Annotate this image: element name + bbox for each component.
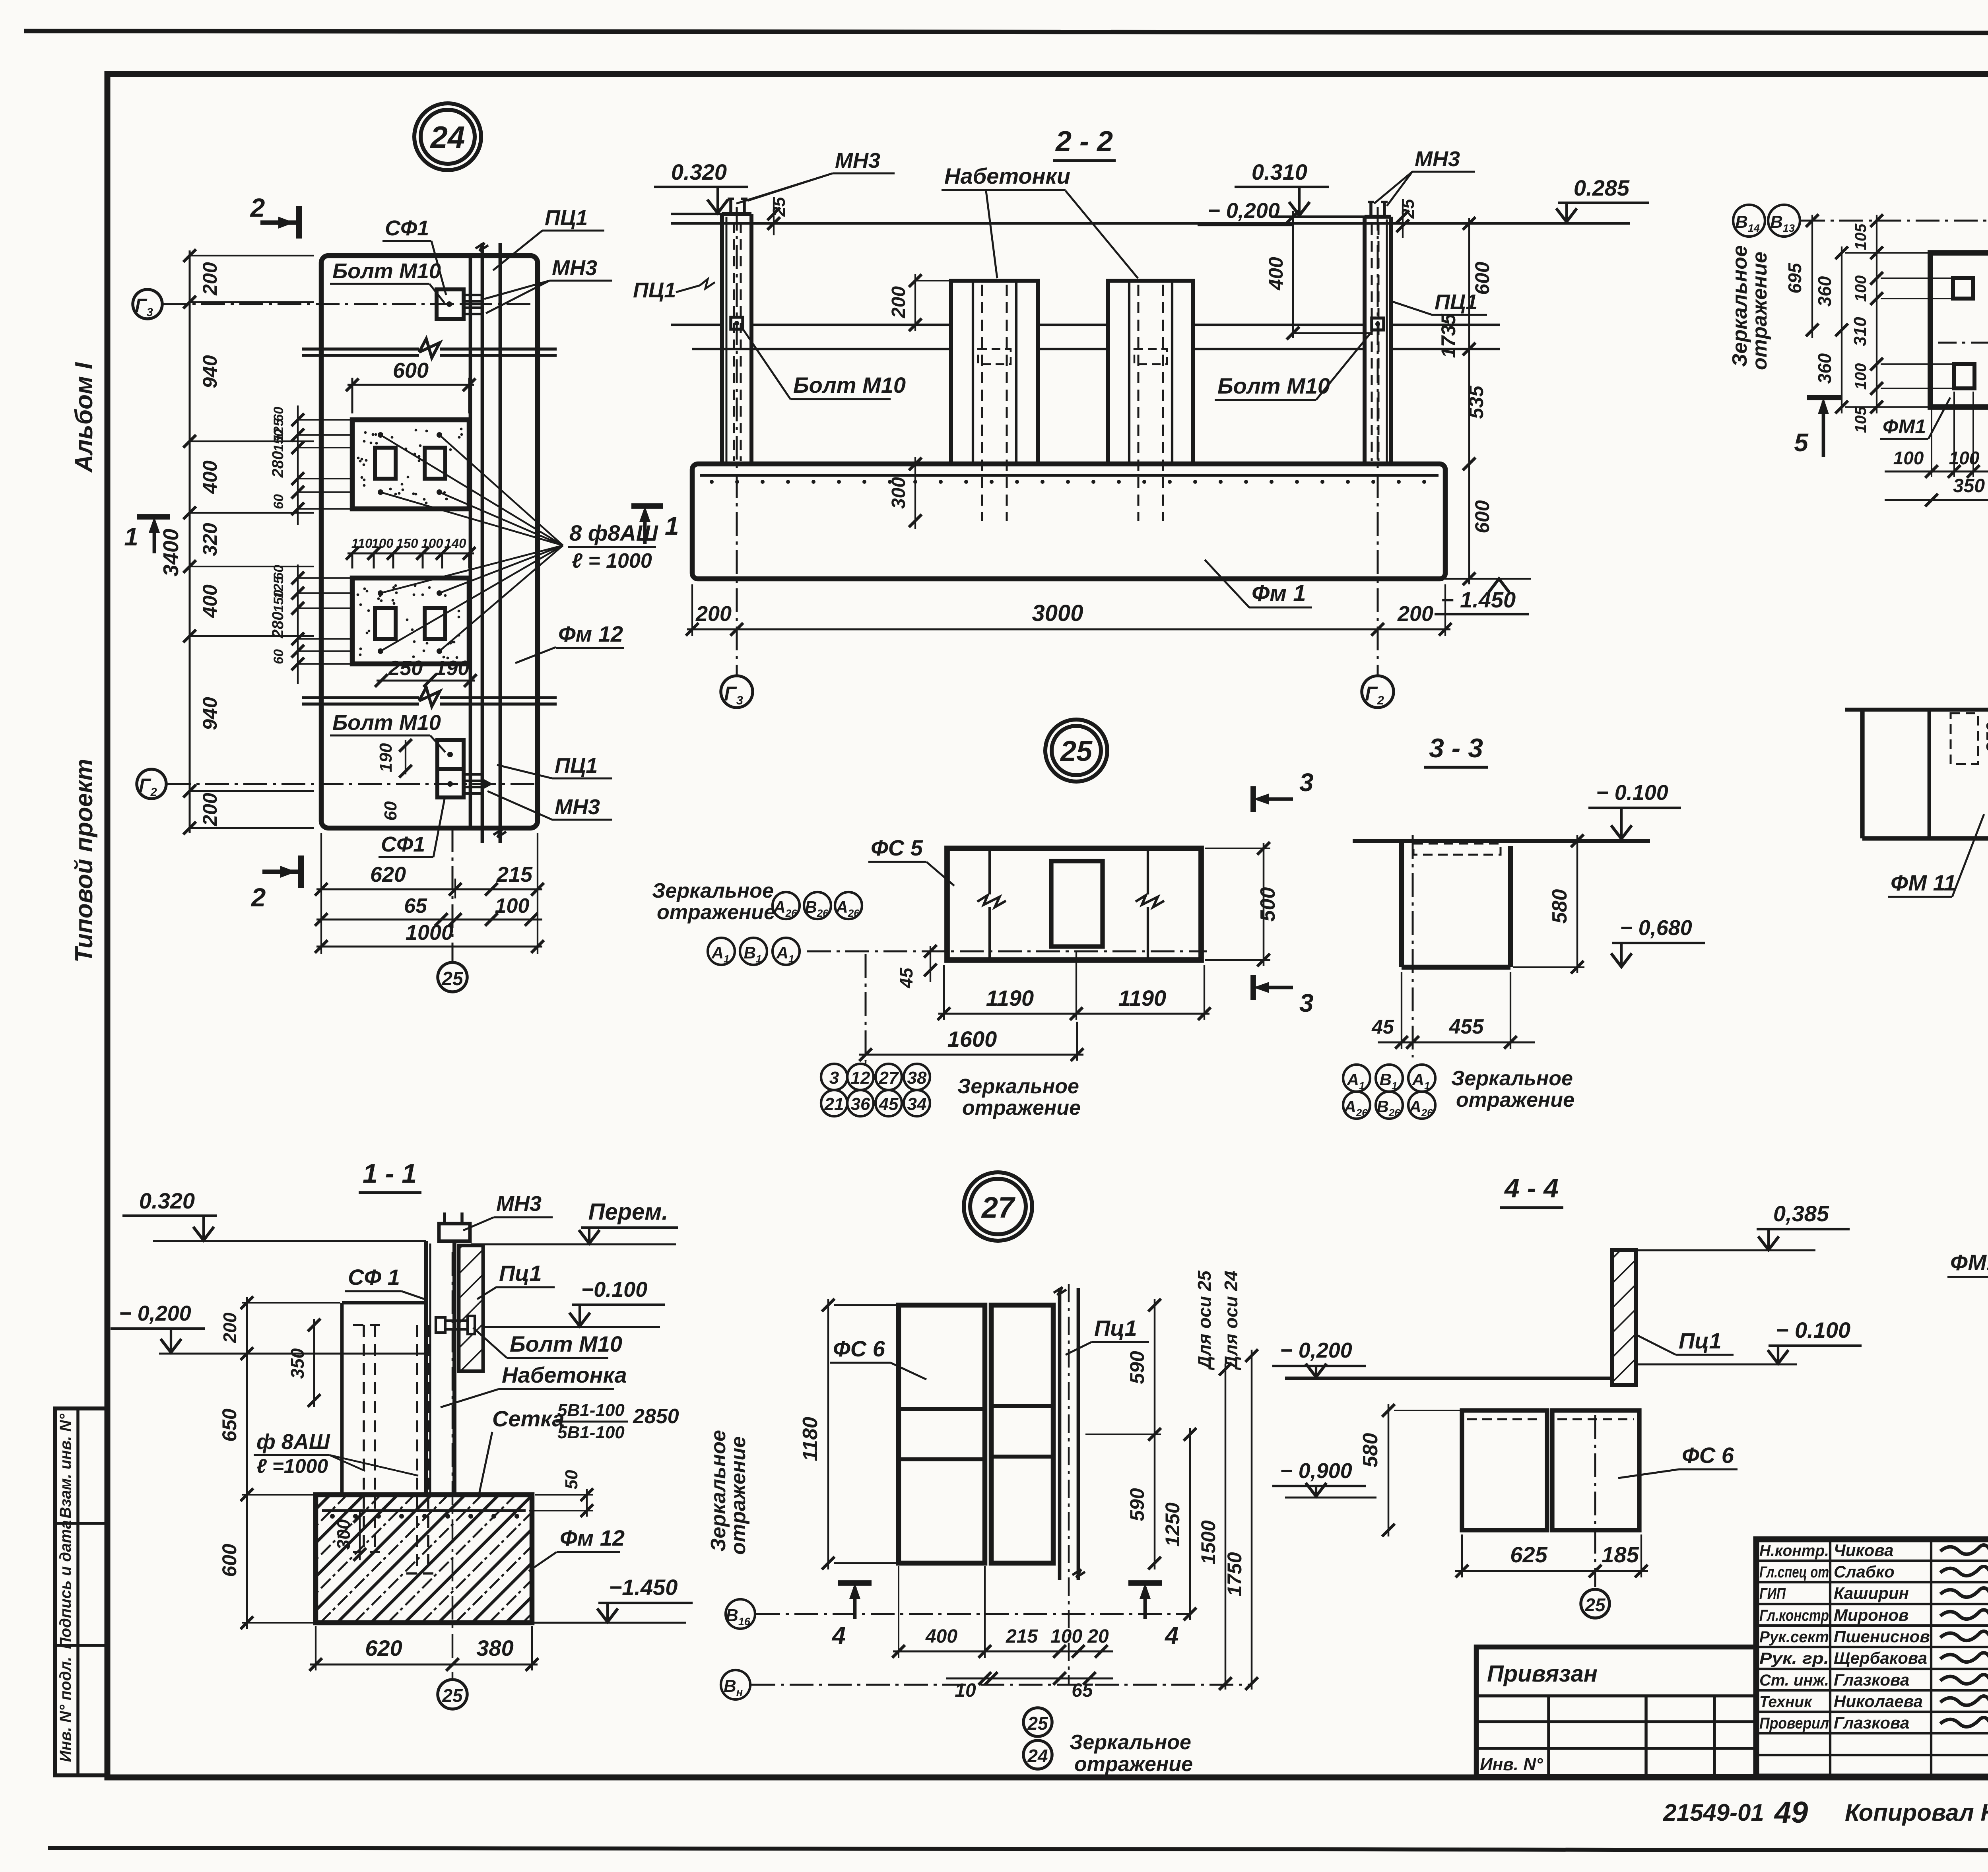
svg-text:100: 100 xyxy=(421,536,443,551)
title block signature table xyxy=(1756,1539,1988,1777)
section title 3-3 xyxy=(1424,733,1488,767)
svg-text:400: 400 xyxy=(1265,257,1287,291)
sheet trim border top xyxy=(24,31,1988,33)
svg-text:1750: 1750 xyxy=(1223,1552,1246,1596)
svg-text:Набетонка: Набетонка xyxy=(502,1362,627,1387)
svg-text:4 - 4: 4 - 4 xyxy=(1504,1173,1559,1203)
dim 1190 1190 xyxy=(938,952,1211,1020)
svg-text:140: 140 xyxy=(444,536,466,551)
section marker 1 left xyxy=(124,517,170,553)
svg-text:МН3: МН3 xyxy=(555,795,600,819)
svg-text:3: 3 xyxy=(1299,989,1314,1017)
label Набетонки with leaders xyxy=(942,163,1138,278)
ground line level 0.285 (long top line) xyxy=(671,222,1630,225)
axis 4-4 xyxy=(1594,1415,1596,1587)
svg-text:1600: 1600 xyxy=(947,1026,997,1051)
svg-text:Перем.: Перем. xyxy=(588,1199,668,1225)
svg-text:− 1.450: − 1.450 xyxy=(1441,587,1516,612)
node grid circles 3 12 27 38 / 21 36 45 34 xyxy=(821,1061,930,1116)
svg-text:0,385: 0,385 xyxy=(1773,1201,1829,1226)
svg-text:3: 3 xyxy=(829,1068,839,1088)
svg-text:280: 280 xyxy=(269,612,287,639)
axis line detail 25 xyxy=(807,951,1207,952)
bolt М10 on right column xyxy=(1372,318,1384,330)
dim 300 in beam xyxy=(888,457,922,529)
svg-text:− 0,900: − 0,900 xyxy=(1280,1459,1352,1483)
svg-text:Техник: Техник xyxy=(1759,1693,1813,1711)
label ПЦ1 4-4 xyxy=(1634,1328,1734,1355)
svg-text:500: 500 xyxy=(1256,887,1279,922)
набетонка block 2 xyxy=(1108,281,1193,521)
svg-text:Н.контр.: Н.контр. xyxy=(1759,1542,1829,1560)
level flag 0.310 right xyxy=(1235,159,1365,217)
inner small dimension chain lower block xyxy=(269,565,352,684)
svg-text:Зеркальное: Зеркальное xyxy=(652,879,774,902)
svg-text:10: 10 xyxy=(955,1680,976,1701)
svg-text:110: 110 xyxy=(351,536,373,551)
section marker 2 bottom xyxy=(250,855,301,912)
label Зеркальное отражение left of 25 xyxy=(652,879,775,924)
axis circles А26 В26 А26 xyxy=(773,892,862,919)
detail 24 slab outline xyxy=(321,256,538,828)
svg-text:45: 45 xyxy=(896,967,916,989)
svg-text:380: 380 xyxy=(476,1635,513,1661)
svg-text:400: 400 xyxy=(199,584,221,618)
svg-text:200: 200 xyxy=(695,602,732,626)
axis line 3-3 xyxy=(1412,835,1414,1057)
dim 580 3-3 xyxy=(1513,834,1584,974)
svg-text:310: 310 xyxy=(1850,317,1870,346)
svg-text:2: 2 xyxy=(250,193,265,222)
svg-text:27: 27 xyxy=(879,1068,899,1088)
svg-text:1000: 1000 xyxy=(406,921,453,945)
axis В16 det27 xyxy=(726,1599,1191,1629)
svg-text:45: 45 xyxy=(879,1094,899,1114)
svg-text:Глазкова: Глазкова xyxy=(1834,1670,1909,1689)
bolt М10 on left column xyxy=(731,317,743,329)
svg-text:Набетонки: Набетонки xyxy=(944,163,1070,188)
svg-text:60: 60 xyxy=(271,494,286,509)
svg-text:Николаева: Николаева xyxy=(1834,1692,1923,1711)
svg-text:МН3: МН3 xyxy=(496,1192,542,1216)
svg-text:отражение: отражение xyxy=(657,901,775,924)
СФ1 top anchor assembly xyxy=(437,289,482,319)
dim 200 near block1 xyxy=(888,274,949,331)
svg-text:600: 600 xyxy=(1471,500,1493,533)
axis circles 3-3 row2 xyxy=(1343,1092,1435,1119)
svg-text:24: 24 xyxy=(1027,1746,1048,1766)
hatched panel ПЦ1 4-4 xyxy=(1612,1250,1636,1385)
label СФ1 1-1 xyxy=(345,1265,425,1299)
detail 25 block ФС5 xyxy=(947,848,1201,960)
small dim 25 right column xyxy=(1396,199,1418,238)
level flag -0.100 3-3 xyxy=(1588,781,1681,839)
svg-text:350: 350 xyxy=(287,1348,308,1379)
svg-text:Болт М10: Болт М10 xyxy=(793,372,906,398)
svg-text:1180: 1180 xyxy=(799,1417,822,1461)
svg-text:105: 105 xyxy=(1852,406,1870,433)
label Набетонка 1-1 xyxy=(441,1362,627,1407)
svg-text:250: 250 xyxy=(1982,722,1988,753)
level flag -1.450 2-2 xyxy=(1435,579,1529,614)
svg-text:4: 4 xyxy=(1164,1622,1178,1649)
level flag -0,200 4-4 xyxy=(1272,1339,1612,1378)
svg-text:отражение: отражение xyxy=(1456,1088,1574,1112)
svg-text:− 0,200: − 0,200 xyxy=(119,1302,191,1325)
svg-text:2850: 2850 xyxy=(633,1405,679,1428)
svg-text:Для оси 24: Для оси 24 xyxy=(1221,1271,1241,1370)
bottom dimension 1000 xyxy=(315,921,544,953)
svg-text:МН3: МН3 xyxy=(552,256,597,280)
label Болт М10 1-1 xyxy=(473,1328,622,1358)
label ПЦ1 1-1 xyxy=(477,1261,555,1299)
level flag 0.320 1-1 xyxy=(122,1188,426,1241)
level flag 0.320 left xyxy=(654,159,748,214)
svg-text:45: 45 xyxy=(1371,1016,1394,1038)
sheet trim border bottom xyxy=(48,1848,1988,1851)
section title 4-4 xyxy=(1500,1173,1563,1208)
svg-text:5В1-100: 5В1-100 xyxy=(557,1401,625,1420)
section marker 2 top xyxy=(250,193,299,239)
level flag 0,385 xyxy=(1636,1201,1850,1250)
svg-text:350: 350 xyxy=(1953,475,1985,497)
svg-text:Взам. инв. N°: Взам. инв. N° xyxy=(57,1413,74,1518)
svg-text:СФ1: СФ1 xyxy=(381,832,425,856)
rebar dashed 1-1 xyxy=(353,1325,439,1573)
dim 1180 det27 xyxy=(799,1299,897,1569)
svg-text:4: 4 xyxy=(831,1622,846,1649)
svg-text:360: 360 xyxy=(1814,353,1835,384)
svg-text:Болт М10: Болт М10 xyxy=(1217,373,1330,398)
svg-text:695: 695 xyxy=(1784,262,1805,293)
svg-text:8 ф8АШ: 8 ф8АШ xyxy=(569,520,658,545)
набетонка block 1 xyxy=(951,281,1038,521)
axis Г3 xyxy=(133,289,538,319)
svg-text:Рук. гр.: Рук. гр. xyxy=(1759,1650,1829,1667)
svg-text:25: 25 xyxy=(1027,1713,1048,1734)
label ФМ 11 xyxy=(1888,814,1984,897)
rebar callout 8 Ф8АIII xyxy=(381,435,658,651)
bottom dims 620 380 1-1 xyxy=(309,1626,538,1671)
svg-text:100: 100 xyxy=(1852,363,1870,390)
label ФС 6 4-4 xyxy=(1618,1443,1738,1478)
svg-text:− 0,200: − 0,200 xyxy=(1280,1339,1352,1362)
section marker 5 left det26 xyxy=(1794,398,1841,457)
label Фм 12 xyxy=(515,621,624,663)
svg-text:−0.100: −0.100 xyxy=(581,1278,648,1302)
svg-text:ФС 5: ФС 5 xyxy=(871,835,923,860)
svg-text:Чикова: Чикова xyxy=(1834,1541,1894,1560)
svg-text:49: 49 xyxy=(1774,1796,1808,1829)
svg-text:Гл.констр: Гл.констр xyxy=(1759,1607,1829,1624)
svg-text:100: 100 xyxy=(1893,448,1924,468)
svg-text:Зеркальное: Зеркальное xyxy=(957,1075,1079,1098)
dim 590 590 det27 xyxy=(1085,1299,1161,1569)
margin label: Альбом I xyxy=(70,362,98,473)
svg-text:21: 21 xyxy=(824,1094,844,1114)
break line upper across slab xyxy=(302,339,557,358)
svg-text:105: 105 xyxy=(1852,223,1870,250)
dims 10 65 det27 xyxy=(946,1672,1113,1701)
svg-text:− 0,200: − 0,200 xyxy=(1208,199,1280,223)
svg-text:150: 150 xyxy=(271,590,286,613)
набетонка outline 1-1 xyxy=(342,1303,426,1495)
node circle 25 under 4-4 xyxy=(1581,1589,1609,1618)
svg-text:100: 100 xyxy=(1050,1626,1082,1647)
svg-text:190: 190 xyxy=(435,657,470,680)
svg-text:625: 625 xyxy=(1510,1542,1547,1567)
svg-text:190: 190 xyxy=(376,743,396,772)
svg-text:ПЦ1: ПЦ1 xyxy=(555,754,598,778)
svg-text:590: 590 xyxy=(1126,1351,1148,1384)
panel ПЦ1 hatched 1-1 xyxy=(459,1245,483,1371)
dims 625 185 4-4 xyxy=(1455,1534,1648,1577)
level flag -0,900 4-4 xyxy=(1272,1459,1376,1498)
svg-text:Пц1: Пц1 xyxy=(499,1261,542,1286)
svg-text:Альбом I: Альбом I xyxy=(70,362,98,473)
svg-text:25: 25 xyxy=(1060,735,1093,767)
svg-text:ФМ 11: ФМ 11 xyxy=(1891,870,1956,895)
axis Вн det27 xyxy=(721,1670,1252,1699)
svg-text:200: 200 xyxy=(219,1312,240,1343)
level flag -0.100 1-1 xyxy=(483,1278,665,1327)
svg-text:200: 200 xyxy=(199,262,221,296)
МН3 label right with leaders xyxy=(1374,147,1475,206)
label Зеркальное отражение bottom det27 xyxy=(1070,1731,1193,1776)
svg-text:60: 60 xyxy=(271,649,286,664)
svg-text:Сетка: Сетка xyxy=(492,1406,565,1431)
svg-text:1 - 1: 1 - 1 xyxy=(363,1158,417,1189)
svg-text:25: 25 xyxy=(769,197,789,217)
label ФМ1 det26 xyxy=(1880,398,1950,439)
svg-text:Пшениснов: Пшениснов xyxy=(1834,1627,1930,1646)
nodes 25 24 det27 xyxy=(1023,1708,1052,1769)
margin label: Типовой проект xyxy=(70,759,98,963)
svg-text:24: 24 xyxy=(430,120,465,155)
axis circles А1 В1 А1 xyxy=(708,938,800,965)
joint line right with break xyxy=(1136,846,1164,962)
labels top of detail 24 xyxy=(382,216,446,295)
svg-text:3 - 3: 3 - 3 xyxy=(1429,733,1483,763)
svg-text:5В1-100: 5В1-100 xyxy=(557,1423,625,1442)
svg-text:27: 27 xyxy=(981,1191,1016,1224)
svg-text:Проверил: Проверил xyxy=(1759,1715,1829,1732)
svg-text:Щербакова: Щербакова xyxy=(1834,1649,1927,1667)
svg-text:МН3: МН3 xyxy=(835,149,880,173)
svg-text:отражение: отражение xyxy=(1074,1753,1193,1776)
svg-text:0.285: 0.285 xyxy=(1574,175,1630,200)
svg-text:200: 200 xyxy=(888,286,909,318)
svg-text:Подпись и дата: Подпись и дата xyxy=(57,1520,74,1649)
svg-text:300: 300 xyxy=(333,1519,354,1550)
axis circles В14 В13 xyxy=(1733,205,1988,237)
svg-text:Болт М10: Болт М10 xyxy=(332,259,441,283)
section markers 4 det27 xyxy=(831,1583,872,1649)
mid horizontal line level -0.200 xyxy=(671,324,1500,326)
svg-text:940: 940 xyxy=(199,697,221,730)
svg-text:Фм 1: Фм 1 xyxy=(1252,580,1306,606)
svg-text:3000: 3000 xyxy=(1032,600,1083,626)
dimension 110 100 150 100 140 above lower block xyxy=(346,536,476,568)
callout ф8АIII 1-1 xyxy=(254,1430,418,1477)
axis circles 3-3 row1 xyxy=(1343,1065,1435,1092)
block ФМ11 5-5 xyxy=(1862,710,1988,838)
lower horizontal line xyxy=(692,348,1500,350)
block section 3-3 xyxy=(1402,841,1510,967)
svg-text:3: 3 xyxy=(1299,768,1314,797)
svg-text:ℓ = 1000: ℓ = 1000 xyxy=(572,549,652,572)
label ФМ12 xyxy=(1947,1250,1988,1324)
svg-text:5: 5 xyxy=(1794,428,1809,457)
node circle 25 xyxy=(1045,720,1107,782)
svg-text:1: 1 xyxy=(124,522,138,551)
foundation ФМ12 1-1 hatched xyxy=(316,1495,532,1623)
label Фм 1 xyxy=(1205,560,1312,607)
СФ1 bottom anchor assembly xyxy=(437,740,493,797)
section markers 3 xyxy=(1253,768,1314,812)
axis and node 25 1-1 xyxy=(438,1252,467,1709)
svg-text:−1.450: −1.450 xyxy=(609,1575,678,1600)
svg-text:ФС 6: ФС 6 xyxy=(1682,1443,1734,1468)
svg-text:400: 400 xyxy=(925,1626,957,1647)
small dims 190 60 near bottom anchor xyxy=(376,739,412,821)
blocks ФС6 plan det27 xyxy=(899,1305,1053,1563)
ground line 5-5 xyxy=(1845,708,1988,712)
block ФМ1 plan det26 xyxy=(1930,253,1988,407)
axis Г3 of 2-2 xyxy=(721,207,753,708)
left stamp table xyxy=(55,1408,108,1775)
svg-text:Рук.сект: Рук.сект xyxy=(1759,1628,1829,1646)
label МН3 1-1 xyxy=(463,1192,553,1230)
dim 300 1-1 xyxy=(333,1510,366,1561)
svg-text:455: 455 xyxy=(1449,1015,1484,1038)
column СФ1 1-1 xyxy=(426,1212,470,1495)
svg-text:Фм 12: Фм 12 xyxy=(560,1525,625,1550)
svg-text:3400: 3400 xyxy=(159,529,183,576)
svg-text:Инв. N°: Инв. N° xyxy=(1480,1755,1543,1774)
label Зеркальное отражение rotated det26 xyxy=(1728,245,1771,370)
svg-text:620: 620 xyxy=(370,863,406,887)
level flag -0.200 2-2 xyxy=(1198,199,1292,225)
svg-text:250: 250 xyxy=(388,657,423,680)
svg-text:320: 320 xyxy=(199,523,221,556)
svg-text:1190: 1190 xyxy=(986,985,1034,1011)
svg-text:580: 580 xyxy=(1548,889,1571,924)
panel ПЦ1 strip det27 xyxy=(1054,1284,1085,1686)
svg-text:МН3: МН3 xyxy=(1415,147,1460,171)
dimension 250 190 below lower block xyxy=(375,657,477,687)
label ФС 6 det27 xyxy=(830,1336,926,1379)
left column 2-2 xyxy=(722,199,751,464)
svg-text:100: 100 xyxy=(371,536,394,551)
svg-text:0.320: 0.320 xyxy=(139,1188,195,1213)
svg-text:25: 25 xyxy=(442,1685,463,1706)
svg-text:300: 300 xyxy=(888,477,909,509)
break line lower across slab xyxy=(302,687,557,706)
svg-text:2: 2 xyxy=(250,883,266,912)
svg-text:650: 650 xyxy=(218,1408,241,1442)
det26 left dim chains xyxy=(1784,214,1972,433)
svg-text:Зеркальное: Зеркальное xyxy=(1451,1067,1573,1090)
svg-text:ФМ12: ФМ12 xyxy=(1950,1250,1988,1275)
svg-text:1500: 1500 xyxy=(1197,1520,1219,1564)
right column 2-2 xyxy=(1365,202,1391,464)
level flag -0,200 1-1 xyxy=(111,1302,426,1354)
svg-text:Болт М10: Болт М10 xyxy=(332,711,441,735)
svg-text:Зеркальное: Зеркальное xyxy=(1070,1731,1191,1754)
svg-text:Фм 12: Фм 12 xyxy=(558,621,623,646)
svg-text:Ст. инж.: Ст. инж. xyxy=(1759,1672,1829,1689)
svg-text:− 0,680: − 0,680 xyxy=(1620,916,1692,940)
svg-text:отражение: отражение xyxy=(727,1436,750,1555)
beam bottom dims 200 3000 200 xyxy=(686,584,1452,636)
svg-text:590: 590 xyxy=(1126,1488,1148,1521)
label Сетка 1-1 xyxy=(479,1401,679,1494)
bottom annotation line xyxy=(1663,1796,1988,1829)
svg-text:36: 36 xyxy=(851,1094,870,1114)
svg-text:200: 200 xyxy=(199,793,221,826)
svg-text:отражение: отражение xyxy=(962,1096,1081,1119)
svg-text:25: 25 xyxy=(1584,1595,1606,1615)
dim 50 1-1 xyxy=(529,1470,593,1517)
svg-text:ПЦ1: ПЦ1 xyxy=(633,278,676,302)
section marker 1 right xyxy=(631,506,679,544)
dim 350 1-1 xyxy=(287,1319,320,1407)
svg-text:Миронов: Миронов xyxy=(1834,1606,1908,1624)
МН3 label left with leaders xyxy=(736,149,895,204)
svg-text:150: 150 xyxy=(396,536,418,551)
inner small dimension chain upper block xyxy=(269,405,352,525)
svg-text:20: 20 xyxy=(1087,1626,1109,1647)
svg-text:215: 215 xyxy=(1006,1626,1038,1647)
level flag 0.285 far right xyxy=(1556,175,1649,222)
small dim 25 left column xyxy=(767,197,789,235)
left dim chain 1-1 xyxy=(218,1296,340,1629)
svg-text:ф 8АШ: ф 8АШ xyxy=(256,1430,330,1454)
svg-text:ГИП: ГИП xyxy=(1759,1585,1786,1602)
svg-text:100: 100 xyxy=(495,894,530,918)
svg-text:СФ 1: СФ 1 xyxy=(348,1265,400,1290)
svg-text:215: 215 xyxy=(496,863,533,887)
svg-text:Привязан: Привязан xyxy=(1487,1661,1598,1687)
svg-text:600: 600 xyxy=(1471,262,1493,295)
svg-text:65: 65 xyxy=(1072,1680,1093,1701)
svg-text:940: 940 xyxy=(199,355,221,388)
det26 bottom dim row 2 xyxy=(1885,453,1988,506)
svg-text:60: 60 xyxy=(381,801,400,821)
svg-text:100: 100 xyxy=(1852,275,1870,302)
svg-text:0.320: 0.320 xyxy=(671,159,727,184)
section title 2-2 xyxy=(1053,126,1116,161)
svg-text:1190: 1190 xyxy=(1118,985,1166,1011)
foundation beam ФМ1 xyxy=(692,464,1445,579)
dim 580 4-4 xyxy=(1359,1404,1460,1536)
panel ПЦ1 edge lines with breaks xyxy=(476,243,506,843)
svg-text:Типовой проект: Типовой проект xyxy=(70,759,98,963)
level flag -0.100 4-4 xyxy=(1636,1317,1862,1364)
svg-text:Гл.спец от: Гл.спец от xyxy=(1759,1564,1829,1581)
svg-text:2 - 2: 2 - 2 xyxy=(1055,126,1113,157)
section title 1-1 xyxy=(359,1158,421,1193)
labels ПЦ1 2-2 xyxy=(633,278,715,302)
svg-text:− 0.100: − 0.100 xyxy=(1776,1317,1850,1342)
bolt 1-1 xyxy=(436,1316,475,1334)
dimension 600 above upper block xyxy=(346,359,476,413)
svg-text:150: 150 xyxy=(271,429,286,452)
labels Болт М10 2-2 xyxy=(744,330,906,399)
svg-text:Пц1: Пц1 xyxy=(1679,1328,1722,1353)
det26 bottom dim row 1 xyxy=(1885,392,1988,478)
